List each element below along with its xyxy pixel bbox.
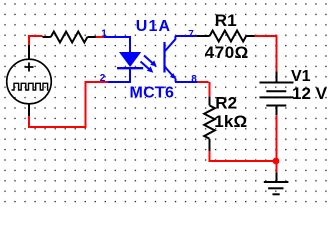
battery short plate 2: [266, 105, 286, 107]
ground lead black: [276, 173, 278, 183]
resistor R2 vertical zigzag: [204, 105, 215, 138]
wire: black R2 bottom lead: [209, 139, 211, 151]
wire: red R1 to battery top: [255, 36, 277, 71]
wire: black pin7 to R1: [196, 35, 209, 37]
svg-text:R1: R1: [215, 11, 237, 30]
wire: red battery bottom to junction: [276, 115, 278, 161]
svg-text:8: 8: [191, 74, 197, 85]
light arrow 2: [141, 62, 154, 73]
svg-text:R2: R2: [215, 94, 237, 113]
pulse source V2 circle: [7, 59, 52, 104]
LED anode triangle of U1A: [119, 52, 141, 67]
emitter arrowhead: [170, 73, 177, 79]
junction node dot: [273, 158, 280, 165]
svg-text:1kΩ: 1kΩ: [214, 112, 247, 131]
phototransistor collector lead: [165, 36, 175, 51]
battery short plate 1: [266, 90, 286, 92]
wire: black into left resistor: [43, 36, 51, 38]
battery long plate 2: [260, 96, 294, 98]
svg-text:V1: V1: [291, 68, 311, 85]
wire: black R2 top lead: [209, 97, 211, 106]
phototransistor base bar: [163, 42, 165, 73]
resistor R1 zigzag: [210, 31, 247, 42]
svg-text:U1A: U1A: [136, 18, 171, 35]
wire: black from resistor to red: [87, 36, 96, 38]
resistor (series, unlabeled) zigzag: [51, 32, 88, 43]
pulse source plus sign: [25, 63, 34, 72]
wire: black source bottom lead: [28, 104, 30, 116]
svg-text:MCT6: MCT6: [130, 85, 175, 102]
wire: red junction to ground stub: [276, 161, 278, 173]
battery long plate 1: [260, 82, 294, 84]
battery V1 top stub black: [276, 71, 278, 82]
light arrow 1: [144, 56, 157, 67]
wire: red to pin 1: [96, 36, 104, 38]
battery bottom stub black: [276, 106, 278, 116]
svg-text:470Ω: 470Ω: [205, 43, 249, 62]
ground symbol: [264, 182, 289, 194]
pulse source square wave: [12, 83, 49, 90]
phototransistor emitter lead: [165, 67, 173, 76]
pin 1 lead blue of U1A: [104, 37, 130, 52]
svg-text:1: 1: [101, 28, 107, 39]
wire: source top lead red to top rail corner: [29, 36, 43, 45]
wire: red pin 2 to corner: [86, 82, 108, 127]
svg-text:12 V: 12 V: [292, 84, 328, 103]
wire: red bottom return to source: [29, 116, 87, 127]
svg-text:7: 7: [188, 29, 194, 40]
collector wire blue to pin 7: [175, 35, 196, 37]
wire: red R2 bottom to junction: [209, 151, 277, 161]
LED cathode lead down to pin 2: [107, 68, 130, 82]
wire: source top lead black: [28, 45, 30, 60]
LED cathode bar: [117, 67, 143, 69]
emitter stub to pin 8: [175, 79, 198, 83]
wire: black R1 to red: [246, 35, 254, 37]
wire: red pin8 to R2 corner: [198, 82, 210, 97]
